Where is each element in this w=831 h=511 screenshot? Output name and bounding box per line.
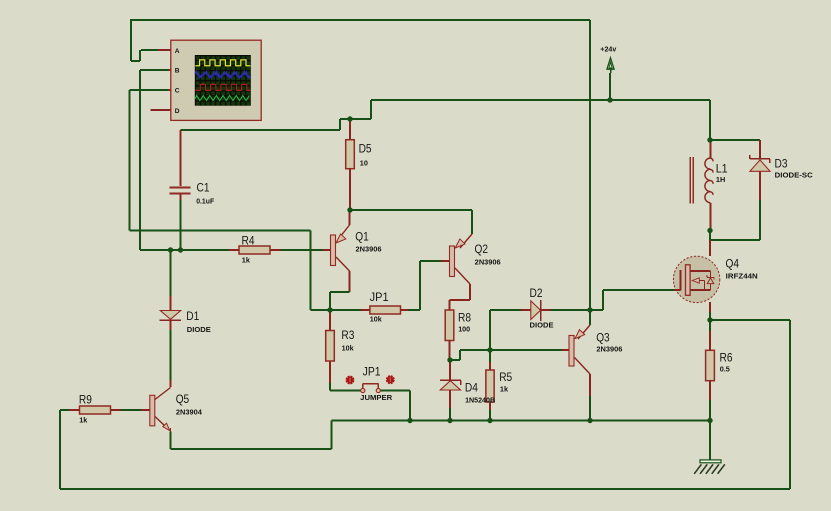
svg-text:0.5: 0.5 bbox=[720, 365, 730, 374]
svg-text:D4: D4 bbox=[465, 383, 479, 395]
svg-text:R9: R9 bbox=[79, 395, 92, 407]
svg-text:Q2: Q2 bbox=[475, 244, 489, 256]
svg-text:D1: D1 bbox=[186, 311, 199, 323]
svg-text:10k: 10k bbox=[342, 344, 355, 353]
svg-text:1k: 1k bbox=[242, 256, 251, 265]
svg-text:IRFZ44N: IRFZ44N bbox=[726, 272, 758, 281]
svg-text:A: A bbox=[175, 48, 180, 55]
svg-text:R4: R4 bbox=[242, 235, 256, 247]
svg-text:2N3906: 2N3906 bbox=[356, 245, 382, 254]
svg-text:10: 10 bbox=[360, 159, 368, 168]
svg-text:JP1: JP1 bbox=[370, 292, 389, 304]
svg-text:100: 100 bbox=[458, 325, 470, 334]
svg-text:B: B bbox=[175, 68, 180, 75]
svg-text:C1: C1 bbox=[197, 183, 210, 195]
svg-text:DIODE: DIODE bbox=[187, 325, 211, 334]
svg-text:DIODE: DIODE bbox=[530, 321, 554, 330]
svg-text:Q5: Q5 bbox=[176, 394, 190, 406]
svg-text:C: C bbox=[175, 88, 180, 95]
svg-text:L1: L1 bbox=[716, 164, 728, 176]
svg-text:Q1: Q1 bbox=[355, 232, 369, 244]
svg-text:2N3904: 2N3904 bbox=[176, 408, 203, 417]
svg-text:10k: 10k bbox=[370, 315, 383, 324]
svg-text:1k: 1k bbox=[500, 385, 509, 394]
svg-text:2N3906: 2N3906 bbox=[475, 258, 501, 267]
svg-text:R5: R5 bbox=[499, 372, 512, 384]
svg-text:D2: D2 bbox=[530, 288, 543, 300]
svg-text:1H: 1H bbox=[716, 175, 725, 184]
svg-text:DIODE-SC: DIODE-SC bbox=[775, 171, 814, 180]
svg-text:D: D bbox=[175, 108, 180, 115]
svg-text:D5: D5 bbox=[359, 144, 372, 156]
svg-text:Q3: Q3 bbox=[596, 333, 610, 345]
svg-text:D3: D3 bbox=[775, 159, 788, 171]
svg-text:2N3906: 2N3906 bbox=[596, 345, 622, 354]
svg-text:0.1uF: 0.1uF bbox=[196, 197, 215, 206]
svg-text:R6: R6 bbox=[720, 353, 733, 365]
svg-text:R8: R8 bbox=[458, 313, 471, 325]
svg-text:JUMPER: JUMPER bbox=[360, 393, 393, 402]
svg-text:1k: 1k bbox=[79, 416, 88, 425]
svg-text:Q4: Q4 bbox=[726, 259, 740, 271]
svg-text:+24v: +24v bbox=[600, 46, 616, 53]
svg-text:R3: R3 bbox=[341, 330, 354, 342]
svg-text:JP1: JP1 bbox=[363, 367, 381, 379]
svg-text:1N5240B: 1N5240B bbox=[465, 396, 495, 405]
